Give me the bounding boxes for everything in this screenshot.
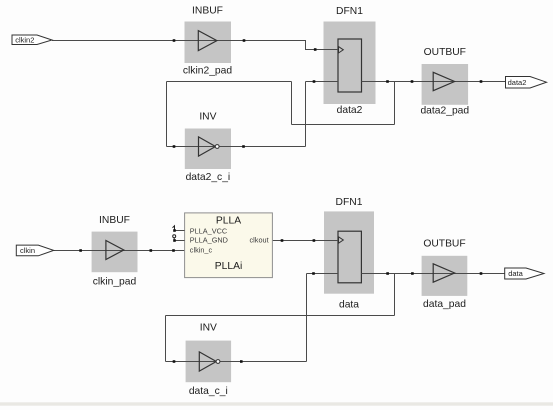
svg-text:PLLA_GND: PLLA_GND [190, 236, 228, 245]
wire INV output rise to D pin (bottom) [306, 274, 308, 362]
pin dot data2_pad input [411, 80, 414, 83]
vcc symbol [173, 226, 175, 230]
svg-text:DFN1: DFN1 [336, 6, 363, 17]
wire feedback drop to INV input (bottom) [165, 316, 167, 362]
label PLLAi [215, 261, 242, 272]
svg-text:OUTBUF: OUTBUF [424, 47, 466, 58]
svg-text:DFN1: DFN1 [336, 197, 363, 208]
svg-text:clkin2_pad: clkin2_pad [183, 66, 233, 77]
pin dot data2 D [313, 80, 316, 83]
outbuf data_pad body [422, 256, 468, 296]
pin dot clkin2_pad input [173, 39, 176, 42]
wire net data: Q output to OUTBUF to output pin (bottom) [361, 273, 504, 275]
inv data_c_i bubble [216, 360, 220, 364]
inv data2_c_i triangle [199, 137, 216, 156]
pin dot data D [312, 272, 315, 275]
wire feedback Q down (bottom) [394, 274, 396, 316]
label PLLA title [216, 216, 241, 227]
inv data2_c_i body [185, 129, 231, 170]
pin dot data2 CLK [314, 48, 317, 51]
label data2 [337, 105, 363, 116]
wire feedback rise at x291 [291, 82, 293, 125]
pin label PLLA_VCC [190, 226, 227, 235]
dfn1 data body [324, 211, 374, 293]
svg-text:data2_pad: data2_pad [420, 106, 469, 117]
svg-text:PLLAi: PLLAi [215, 261, 242, 272]
vcc stub wire to PLLA_VCC [175, 230, 185, 232]
dfn1 data2 clock triangle [339, 47, 344, 53]
svg-text:clkout: clkout [250, 236, 269, 245]
svg-text:clkin_c: clkin_c [190, 245, 213, 254]
svg-text:INV: INV [200, 323, 217, 334]
pin dot PLLA clkout [281, 239, 284, 242]
dfn1 data2 body [324, 22, 376, 105]
label data2_c_i [186, 172, 231, 183]
svg-text:OUTBUF: OUTBUF [423, 239, 465, 250]
pin dot data2 Q [386, 80, 389, 83]
wire net clkin: input pin to INBUF to PLLA clkin_c [54, 250, 185, 252]
label OUTBUF (bottom) [423, 239, 465, 250]
wire net clkout: PLLA to DFN1 clock [272, 240, 338, 242]
outbuf data_pad triangle [433, 264, 454, 282]
label clkin_pad [93, 276, 137, 287]
wire INV row [167, 146, 306, 148]
pin dot clkin2_pad output [243, 39, 246, 42]
wire net data2_c: D input segment [306, 81, 339, 83]
label INBUF (top) [192, 6, 223, 17]
wire feedback drop to INV input [166, 82, 168, 147]
label INBUF (bottom) [99, 215, 130, 226]
gnd stub wire to PLLA_GND [175, 240, 185, 242]
label OUTBUF (top) [424, 47, 466, 58]
pin dot data_c_i input [173, 360, 176, 363]
gnd symbol [173, 235, 176, 240]
inbuf clkin2_pad triangle [198, 31, 217, 51]
pin dot data2_c_i output [242, 145, 245, 148]
pin dot data CLK [313, 239, 316, 242]
svg-text:data: data [339, 300, 359, 311]
dfn1 data inner rect [338, 231, 361, 283]
wire feedback horizontal (bottom) [166, 315, 395, 317]
svg-text:clkin: clkin [20, 246, 35, 255]
pin dot data2_pad output [480, 80, 483, 83]
wire net data_c: D input segment (bottom) [307, 273, 339, 275]
bottom window edge band [0, 402, 553, 405]
input pin clkin2 [12, 35, 52, 45]
pin dot clkin_pad output [150, 249, 153, 252]
wire feedback upper horizontal to x166 [167, 81, 292, 83]
svg-text:PLLA: PLLA [216, 216, 241, 227]
svg-text:INBUF: INBUF [192, 6, 223, 17]
svg-text:data2: data2 [337, 105, 363, 116]
outbuf data2_pad body [422, 64, 469, 105]
pin dot data Q [386, 272, 389, 275]
input pin clkin [16, 245, 53, 256]
pin dot PLLA_GND [173, 239, 176, 242]
pin dot data_pad output [480, 272, 483, 275]
output pin data2 [506, 77, 547, 89]
svg-text:INBUF: INBUF [99, 215, 130, 226]
svg-text:data_pad: data_pad [423, 299, 466, 310]
inv data_c_i body [186, 341, 232, 383]
wire net data2: Q output to OUTBUF to output pin [362, 81, 506, 83]
svg-text:PLLA_VCC: PLLA_VCC [190, 226, 227, 235]
label clkin2_pad [183, 66, 233, 77]
pin dot data2_c_i input [173, 145, 176, 148]
inbuf clkin_pad triangle [106, 241, 124, 260]
svg-text:clkin_pad: clkin_pad [93, 276, 137, 287]
pin label PLLA_GND [190, 236, 228, 245]
svg-text:data2: data2 [508, 78, 527, 87]
label data2_pad [420, 106, 469, 117]
pin label clkout [250, 236, 269, 245]
pll PLLAi body [185, 213, 273, 278]
output pin data [505, 268, 544, 279]
pin dot clkin_pad input [79, 249, 82, 252]
outbuf data2_pad triangle [433, 72, 454, 90]
pin dot PLLA_VCC [173, 229, 176, 232]
dfn1 data clock triangle [339, 237, 344, 243]
inv data_c_i triangle [199, 352, 216, 371]
label data [339, 300, 359, 311]
wire feedback bottom horizontal [292, 124, 395, 126]
svg-text:data: data [508, 269, 523, 278]
label DFN1 (bottom) [336, 197, 363, 208]
pin dot data_c_i output [240, 360, 243, 363]
wire INV row (bottom) [166, 361, 307, 363]
wire feedback Q down [394, 82, 396, 125]
inbuf clkin2_pad body [185, 22, 232, 64]
dfn1 data2 inner rect [338, 39, 362, 92]
label DFN1 (top) [336, 6, 363, 17]
wire INV output rise to D pin [305, 82, 307, 147]
pin dot data_pad input [411, 272, 414, 275]
label data_pad [423, 299, 466, 310]
svg-text:data2_c_i: data2_c_i [186, 172, 231, 183]
pin dot PLLA clkin_c [172, 249, 175, 252]
wire net clkin2: input pin to INBUF to corner [52, 41, 338, 50]
label INV (bottom) [200, 323, 217, 334]
inbuf clkin_pad body [92, 232, 138, 273]
svg-text:clkin2: clkin2 [15, 36, 34, 45]
svg-text:data_c_i: data_c_i [189, 386, 228, 397]
inv data2_c_i bubble [215, 145, 219, 149]
svg-text:INV: INV [199, 112, 216, 123]
pin label clkin_c [190, 245, 213, 254]
label data_c_i [189, 386, 228, 397]
label INV (top) [199, 112, 216, 123]
